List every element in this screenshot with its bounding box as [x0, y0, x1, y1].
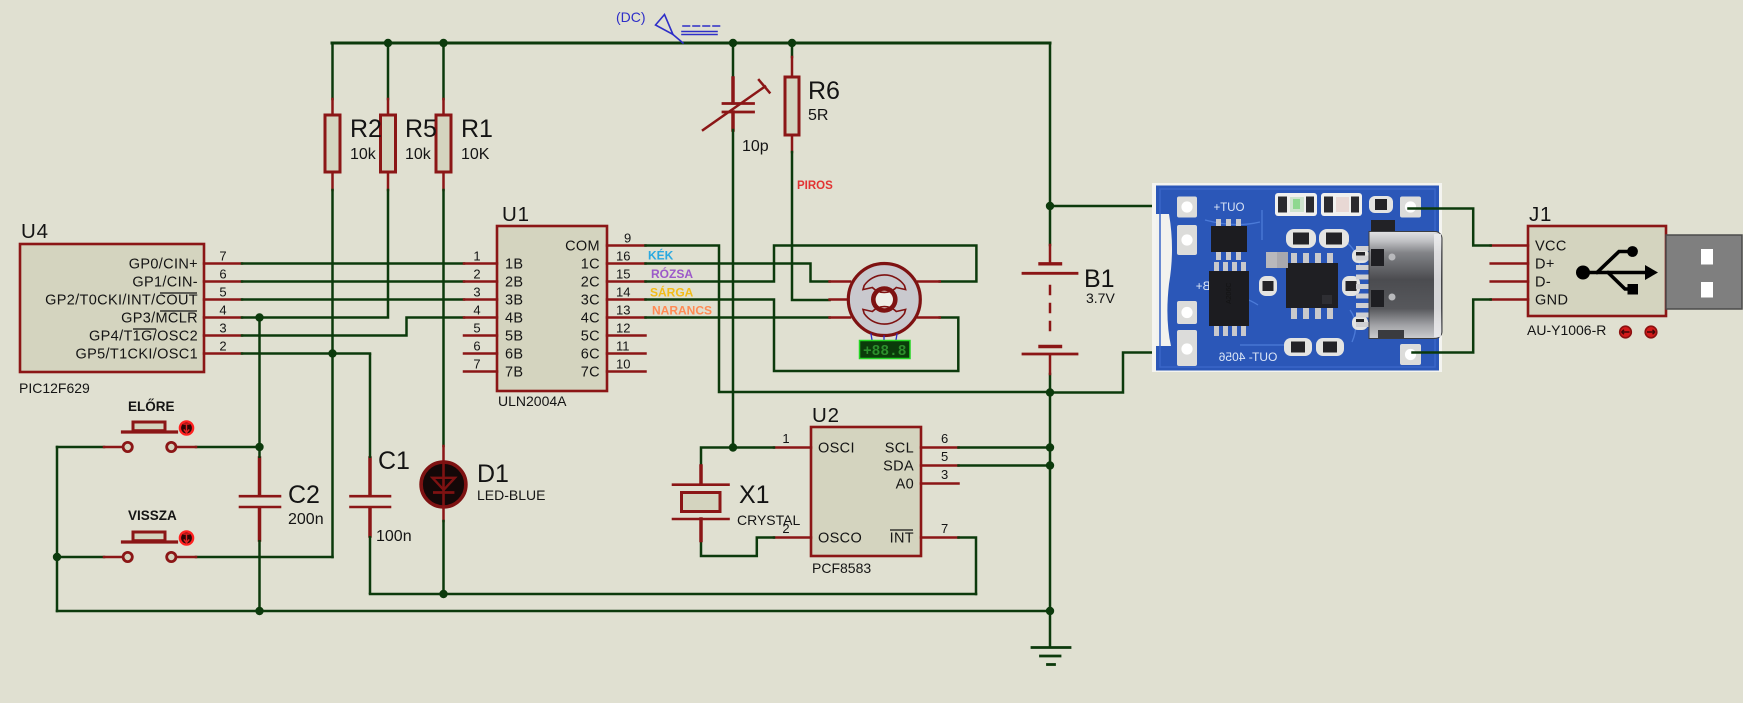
icon USB trident [1584, 252, 1645, 290]
svg-text:ELŐRE: ELŐRE [128, 399, 175, 414]
wire INT down to 594 line [959, 538, 977, 595]
svg-text:PCF8583: PCF8583 [812, 560, 871, 576]
svg-text:5: 5 [473, 321, 480, 336]
wire GP3 branch down to ELORE/C2 [258, 318, 261, 448]
wire top power bus [332, 42, 1050, 45]
wire C2 bottom green to bus [258, 540, 261, 611]
node junction GP3 branch [255, 313, 263, 321]
svg-text:OUT- 4056: OUT- 4056 [1218, 350, 1277, 364]
IC U2 PCF8583 body [811, 427, 921, 556]
wire SCL to right rail [959, 446, 1051, 449]
svg-text:OUT+: OUT+ [1213, 202, 1244, 214]
pin U1.6 6B stub [464, 352, 497, 355]
module TP4056 photo [1152, 183, 1442, 372]
node junction ground/bus [1046, 607, 1054, 615]
voltage probe (DC) [656, 15, 720, 44]
svg-text:VISSZA: VISSZA [128, 508, 177, 523]
crystal X1 [673, 466, 729, 541]
svg-text:6C: 6C [581, 347, 600, 363]
svg-text:10: 10 [616, 357, 630, 372]
svg-text:4: 4 [473, 303, 480, 318]
svg-text:5: 5 [219, 285, 226, 300]
pin U4.6 GP1 stub [204, 280, 242, 283]
svg-text:12: 12 [616, 321, 630, 336]
wire GP5 vertical down to VISSZA [331, 354, 334, 558]
resistor R1 [442, 99, 445, 190]
wire C2 top green [258, 447, 261, 458]
pin U2.7 INT stub [921, 536, 959, 539]
connector J1 body [1528, 226, 1666, 316]
svg-text:7: 7 [473, 357, 480, 372]
connector USB plug contact 2 [1701, 282, 1713, 298]
button ELORE [104, 421, 196, 451]
pin U1.10 7C stub [607, 370, 646, 373]
svg-text:10k: 10k [350, 146, 377, 163]
capacitor C1 [351, 458, 391, 536]
svg-text:14: 14 [616, 285, 630, 300]
LED D1 [421, 190, 466, 594]
node junction trimmer/bus [729, 39, 737, 47]
svg-text:SDA: SDA [883, 459, 914, 475]
wire battery plus rail [1049, 206, 1052, 245]
pin U2.6 SCL stub [921, 446, 959, 449]
pin U1.7 7B stub [464, 370, 497, 373]
svg-text:R2: R2 [350, 115, 382, 143]
pin J1 D+ stub [1491, 262, 1528, 265]
svg-text:2C: 2C [581, 275, 600, 291]
svg-text:1: 1 [782, 431, 789, 446]
pin J1 GND stub [1491, 298, 1528, 301]
wire right rail down to bus [1049, 393, 1052, 612]
wire C1/D1/INT line [370, 593, 976, 596]
module pad OUT- bottom-left [1177, 330, 1197, 366]
wire GP1 row to U1 2B [242, 280, 464, 283]
svg-text:+88.8: +88.8 [863, 344, 907, 360]
wire GP2 row to U1 3B [242, 298, 464, 301]
svg-text:C1: C1 [378, 447, 410, 475]
label U1 right pin numbers [616, 231, 631, 372]
svg-text:3.7V: 3.7V [1086, 290, 1115, 306]
module pad left 2 [1177, 225, 1197, 255]
svg-text:200n: 200n [288, 511, 324, 528]
pin U1.16 1C stub [607, 262, 646, 265]
label U1 left pin numbers [473, 249, 480, 372]
pin U1.4 4B stub [464, 316, 497, 319]
svg-text:2B: 2B [505, 275, 523, 291]
module pad B+ top-left [1177, 197, 1197, 218]
svg-text:5B: 5B [505, 329, 523, 345]
label U1 right pin names [565, 239, 600, 381]
wire VISSZA row [57, 556, 333, 559]
pin U2.5 SDA stub [921, 464, 959, 467]
module USB-C connector [1356, 220, 1442, 339]
svg-text:GP3/MCLR: GP3/MCLR [121, 311, 198, 327]
svg-text:6: 6 [473, 339, 480, 354]
svg-text:J1: J1 [1529, 203, 1552, 226]
node junction R6/bus [788, 39, 796, 47]
svg-text:B1: B1 [1084, 265, 1115, 293]
marker bus terminator right [1645, 326, 1657, 338]
label U4 pin name overlines [133, 293, 197, 329]
resistor R6 [791, 57, 794, 152]
node junction GP5/R2 [328, 349, 336, 357]
svg-text:5R: 5R [808, 107, 828, 124]
svg-text:2: 2 [219, 339, 226, 354]
pin U1.14 3C stub [607, 298, 646, 301]
wire R2 top stem [331, 43, 334, 99]
wire OSCO loop to crystal bottom [701, 538, 774, 557]
label U1 left pin names [505, 257, 523, 381]
svg-text:3: 3 [219, 321, 226, 336]
module LED window 2 [1321, 193, 1362, 216]
wire GP3 row to R5 [242, 190, 388, 318]
capacitor CV1 trimmer 10p [731, 78, 735, 103]
wire to module B+ pad [1050, 205, 1185, 208]
svg-text:R5: R5 [405, 115, 437, 143]
svg-text:NARANCS: NARANCS [652, 304, 712, 318]
wire C1 top green from GP5 [369, 354, 372, 459]
module pad top-right [1400, 197, 1421, 218]
svg-text:GP5/T1CKI/OSC1: GP5/T1CKI/OSC1 [75, 347, 198, 363]
pin J1 VCC stub [1491, 244, 1528, 247]
connector USB plug shell [1666, 235, 1742, 309]
svg-text:AU-Y1006-R: AU-Y1006-R [1527, 322, 1606, 338]
wire GP5 row to C1 [242, 190, 370, 354]
module pad bottom-right [1400, 344, 1421, 365]
wire bus corner down to battery [1049, 43, 1052, 206]
wire SDA to right rail [959, 464, 1051, 467]
node junction VISSZA left [53, 553, 61, 561]
svg-text:3B: 3B [505, 293, 523, 309]
svg-text:U4: U4 [21, 220, 49, 243]
pin U4.3 GP4 stub [204, 334, 242, 337]
wire COM to battery minus rail [646, 246, 1051, 393]
node junction R5/bus [384, 39, 392, 47]
module chip small 6pin [1211, 219, 1247, 260]
display motor speed +88.8 [860, 341, 911, 359]
pin U1.13 4C stub [607, 316, 646, 319]
node junction trimmer/OSCI [729, 443, 737, 451]
pin U2.1 OSCI stub [774, 446, 811, 449]
svg-text:RÓZSA: RÓZSA [651, 266, 693, 281]
pin U1.9 COM stub [607, 244, 646, 247]
pin U1.1 1B stub [464, 262, 497, 265]
IC U4 PIC12F629 body [20, 244, 204, 372]
marker bus terminator left [1620, 326, 1632, 338]
svg-text:D-: D- [1535, 275, 1551, 291]
svg-text:A206C: A206C [1226, 283, 1233, 304]
svg-text:7: 7 [941, 521, 948, 536]
svg-text:15: 15 [616, 267, 630, 282]
wire KEK 1C to motor left upper [646, 264, 830, 282]
node junction SDA/right rail [1046, 461, 1054, 469]
svg-text:KÉK: KÉK [648, 248, 674, 263]
svg-text:1: 1 [473, 249, 480, 264]
svg-text:B+: B+ [1196, 281, 1211, 293]
pin U4.7 GP0 stub [204, 262, 242, 265]
svg-text:10k: 10k [405, 146, 432, 163]
svg-text:6B: 6B [505, 347, 523, 363]
svg-text:4: 4 [219, 303, 226, 318]
wire OSCI row / crystal top [701, 448, 774, 467]
svg-text:SÁRGA: SÁRGA [650, 285, 694, 300]
wire ELORE row [57, 446, 260, 449]
label U4 pin names [45, 257, 198, 363]
svg-text:7: 7 [219, 249, 226, 264]
svg-text:U1: U1 [502, 203, 530, 226]
module chip TP4056 soic8 [1286, 253, 1338, 319]
pin U1.15 2C stub [607, 280, 646, 283]
wire SARGA 3C under motor to right lower [646, 300, 959, 372]
wire R6 top stem [791, 43, 794, 57]
button VISSZA [104, 531, 196, 561]
svg-text:D+: D+ [1535, 257, 1555, 273]
svg-text:OSCO: OSCO [818, 531, 862, 547]
pin U1.12 5C stub [607, 334, 646, 337]
svg-text:100n: 100n [376, 528, 412, 545]
module resistor R5 top [1369, 196, 1393, 213]
svg-text:9: 9 [624, 231, 631, 246]
svg-text:INT: INT [890, 531, 914, 547]
svg-text:3: 3 [473, 285, 480, 300]
pin U2.2 OSCO stub [774, 536, 811, 539]
svg-text:7B: 7B [505, 365, 523, 381]
svg-text:R1: R1 [461, 115, 493, 143]
svg-text:D1: D1 [477, 460, 509, 488]
svg-text:1B: 1B [505, 257, 523, 273]
node junction ELORE/C2/GP3 [255, 443, 263, 451]
svg-text:13: 13 [616, 303, 630, 318]
wire battery minus to rail [1049, 374, 1052, 393]
pin U4.2 GP5 stub [204, 352, 242, 355]
pin U1.2 2B stub [464, 280, 497, 283]
wire module OUT- to J1 GND [1413, 300, 1491, 353]
module passives [1259, 229, 1369, 356]
module pad left 3 [1177, 301, 1197, 324]
svg-text:VCC: VCC [1535, 239, 1567, 255]
label U4 pin numbers [219, 249, 226, 354]
svg-text:GP0/CIN+: GP0/CIN+ [129, 257, 198, 273]
svg-text:5C: 5C [581, 329, 600, 345]
pin U1.3 3B stub [464, 298, 497, 301]
node junction SCL/right rail [1046, 443, 1054, 451]
svg-text:C2: C2 [288, 481, 320, 509]
svg-text:GP1/CIN-: GP1/CIN- [132, 275, 198, 291]
wire R5 top stem [387, 43, 390, 99]
svg-text:4C: 4C [581, 311, 600, 327]
connector USB plug contact 1 [1701, 249, 1713, 265]
svg-text:5: 5 [941, 449, 948, 464]
svg-text:GP4/T1G/OSC2: GP4/T1G/OSC2 [89, 329, 198, 345]
wire R6 down to motor common [792, 152, 830, 300]
svg-text:4B: 4B [505, 311, 523, 327]
label U2 INT overline [890, 529, 913, 531]
node junction R1/bus [439, 39, 447, 47]
svg-text:6: 6 [941, 431, 948, 446]
svg-text:GND: GND [1535, 293, 1568, 309]
wire module OUT+ to J1 VCC [1409, 209, 1491, 246]
wire C1 bottom green to 594 line [369, 536, 372, 594]
pin J1 D- stub [1491, 280, 1528, 283]
svg-text:PIC12F629: PIC12F629 [19, 380, 90, 396]
resistor R5 [387, 99, 390, 190]
resistor R2 [331, 99, 334, 190]
wire bottom ground bus [57, 610, 1050, 613]
svg-text:CRYSTAL: CRYSTAL [737, 512, 800, 528]
IC U1 ULN2004A body [497, 226, 607, 391]
svg-text:X1: X1 [739, 481, 770, 509]
pin U1.5 5B stub [464, 334, 497, 337]
pin U4.5 GP2 stub [204, 298, 242, 301]
svg-text:A0: A0 [896, 477, 914, 493]
svg-text:(DC): (DC) [616, 9, 646, 25]
svg-text:LED-BLUE: LED-BLUE [477, 487, 545, 503]
svg-text:10p: 10p [742, 138, 769, 155]
svg-text:R6: R6 [808, 77, 840, 105]
svg-text:2: 2 [473, 267, 480, 282]
pin U4.4 GP3 stub [204, 316, 242, 319]
svg-text:6: 6 [219, 267, 226, 282]
svg-text:11: 11 [616, 339, 630, 354]
svg-text:10K: 10K [461, 146, 490, 163]
svg-text:COM: COM [565, 239, 600, 255]
svg-text:PIROS: PIROS [797, 180, 833, 192]
svg-text:GP2/T0CKI/INT/COUT: GP2/T0CKI/INT/COUT [45, 293, 198, 309]
node junction B- branch [1046, 388, 1054, 396]
module LED window 1 [1275, 193, 1317, 216]
wire GP4 row with jog to U1 4B [242, 318, 464, 336]
ground symbol [1032, 611, 1070, 665]
wire trimmer top stem [732, 43, 735, 78]
svg-text:3: 3 [941, 467, 948, 482]
wire ROZSA 2C over motor to right upper [646, 246, 977, 282]
module chip DW01 8pin [1209, 262, 1249, 336]
wire left vertical button common [56, 447, 59, 611]
svg-text:SCL: SCL [885, 441, 914, 457]
wire R1 top stem [442, 43, 445, 99]
node junction C2 bottom/bus [255, 607, 263, 615]
svg-text:ULN2004A: ULN2004A [498, 393, 567, 409]
wire trimmer down to OSCI row [732, 130, 735, 448]
battery B1 [1023, 245, 1077, 374]
capacitor C2 [240, 458, 280, 540]
svg-text:3C: 3C [581, 293, 600, 309]
wire B- to module OUT- pad [1050, 353, 1185, 393]
wire GP0 row to U1 1B [242, 262, 464, 265]
pin U2.3 A0 stub [921, 482, 959, 485]
svg-text:U2: U2 [812, 404, 840, 427]
node junction D1/594 line [439, 590, 447, 598]
node junction B+ branch [1046, 202, 1054, 210]
svg-text:1C: 1C [581, 257, 600, 273]
svg-text:16: 16 [616, 249, 630, 264]
svg-text:7C: 7C [581, 365, 600, 381]
motor M1 stepper [830, 264, 940, 343]
svg-text:OSCI: OSCI [818, 441, 855, 457]
pin U1.11 6C stub [607, 352, 646, 355]
wire NARANCS 4C to motor left lower [646, 316, 830, 319]
module trace hints [1205, 210, 1360, 345]
